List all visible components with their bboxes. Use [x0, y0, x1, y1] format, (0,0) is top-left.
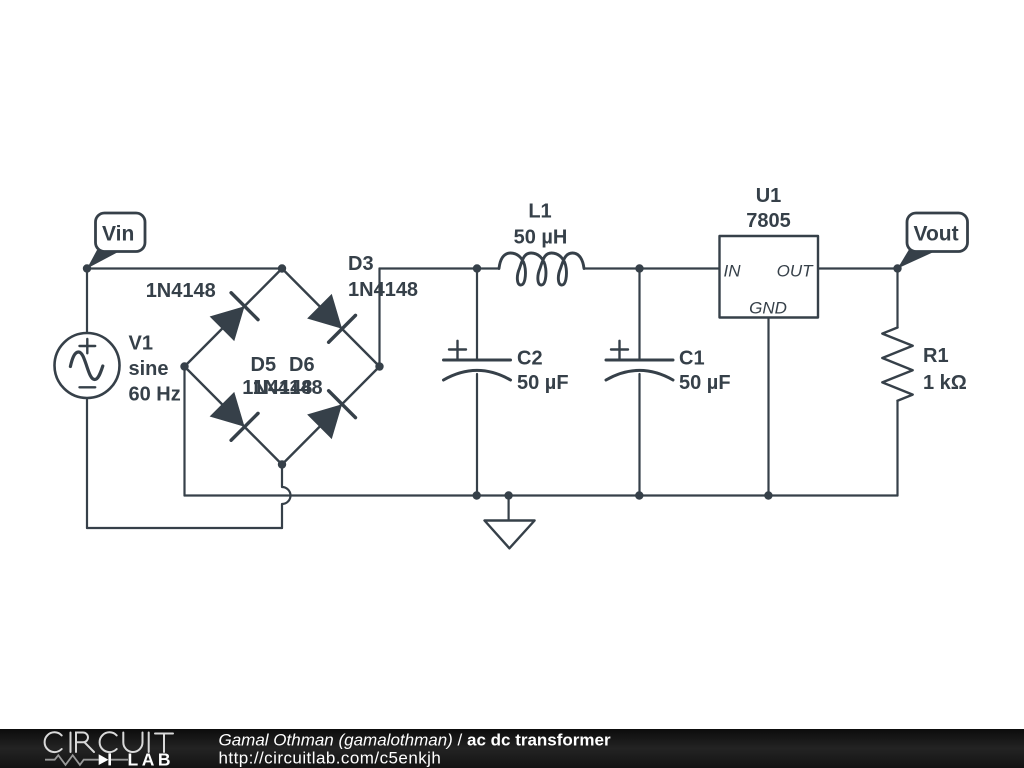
ground symbol — [485, 496, 535, 549]
svg-text:IN: IN — [724, 262, 742, 281]
flag Vin — [87, 213, 145, 269]
wire C2 bottom — [476, 374, 478, 496]
node C2 top dot — [473, 264, 481, 272]
voltage source V1 — [55, 333, 120, 398]
svg-text:OUT: OUT — [777, 262, 815, 281]
node C2 bottom dot — [473, 491, 481, 499]
wire bridge left corner down to ground bus — [183, 367, 185, 496]
node Vin junction dot — [83, 264, 91, 272]
node C1 top dot — [635, 264, 643, 272]
svg-text:1N4148: 1N4148 — [146, 280, 216, 302]
bridge diamond edge top-right — [282, 269, 380, 367]
bridge diamond edge bottom-left — [185, 367, 283, 465]
svg-text:Vin: Vin — [102, 223, 134, 246]
diode D4 bottom-right arm — [307, 391, 355, 439]
svg-text:V1: V1 — [129, 333, 153, 355]
wire Vin node to V1 top — [86, 269, 88, 335]
svg-text:Gamal Othman (gamalothman) / a: Gamal Othman (gamalothman) / ac dc trans… — [219, 731, 611, 750]
node bridge bottom dot — [278, 460, 286, 468]
svg-text:7805: 7805 — [746, 210, 791, 232]
node bridge top dot — [278, 264, 286, 272]
svg-text:Vout: Vout — [914, 223, 959, 246]
svg-text:D6: D6 — [289, 354, 315, 376]
wire R1 bottom to bus — [896, 401, 898, 496]
wire C1 top — [638, 269, 640, 361]
node ground junction dot — [504, 491, 512, 499]
svg-text:GND: GND — [749, 299, 787, 318]
inductor L1 — [499, 253, 584, 285]
svg-text:50 µF: 50 µF — [679, 372, 731, 394]
svg-text:50 µH: 50 µH — [514, 227, 568, 249]
wire bottom return horizontal — [87, 527, 282, 529]
wire C2 top — [476, 269, 478, 361]
bridge diamond edge top-left — [185, 269, 283, 367]
svg-text:R1: R1 — [923, 345, 949, 367]
wire Vout node to R1 — [896, 269, 898, 328]
svg-text:60 Hz: 60 Hz — [129, 384, 181, 406]
node Vout junction dot — [893, 264, 901, 272]
svg-text:1 kΩ: 1 kΩ — [923, 372, 967, 394]
svg-text:L1: L1 — [528, 201, 551, 223]
svg-text:U1: U1 — [756, 185, 782, 207]
node C1 bottom dot — [635, 491, 643, 499]
resistor R1 zigzag — [882, 328, 912, 401]
CircuitLab logo resistor-diode line — [45, 753, 128, 765]
wire U1 GND to bus — [767, 318, 769, 496]
svg-text:D5: D5 — [251, 354, 277, 376]
svg-text:1N4148: 1N4148 — [253, 377, 323, 399]
svg-text:50 µF: 50 µF — [517, 372, 569, 394]
svg-text:1N4148: 1N4148 — [348, 279, 418, 301]
svg-text:D3: D3 — [348, 253, 374, 275]
flag Vout — [898, 213, 968, 269]
wire bridge right corner up — [378, 269, 380, 367]
CircuitLab logo CIRCUIT letters — [45, 732, 173, 752]
svg-text:http://circuitlab.com/c5enkjh: http://circuitlab.com/c5enkjh — [219, 749, 442, 768]
bridge diamond edge bottom-right — [282, 367, 380, 465]
wire top bus from Vin node to bridge top — [87, 267, 282, 269]
diode D3 top-right arm — [307, 294, 355, 342]
diode D6 bottom-left arm — [210, 392, 258, 440]
voltage regulator U1 box — [720, 236, 819, 318]
svg-text:C1: C1 — [679, 348, 705, 370]
wire ground bus — [185, 494, 898, 496]
svg-text:LAB: LAB — [128, 750, 174, 768]
wire V1 bottom down — [86, 398, 88, 529]
svg-text:sine: sine — [129, 358, 169, 380]
wire U1 OUT to Vout node — [818, 267, 898, 269]
capacitor C2 — [444, 341, 511, 380]
capacitor C1 — [606, 341, 673, 380]
wire L1 to U1 IN — [584, 267, 720, 269]
footer bar — [0, 729, 1024, 768]
diode D5 top-left arm — [210, 293, 258, 341]
node U1 GND bus dot — [764, 491, 772, 499]
wire C1 bottom — [638, 374, 640, 496]
node bridge left dot — [180, 362, 188, 370]
wire bridge right to L1 — [380, 267, 500, 269]
node bridge right dot — [375, 362, 383, 370]
svg-text:C2: C2 — [517, 348, 543, 370]
wire bridge bottom to hop — [282, 465, 291, 529]
